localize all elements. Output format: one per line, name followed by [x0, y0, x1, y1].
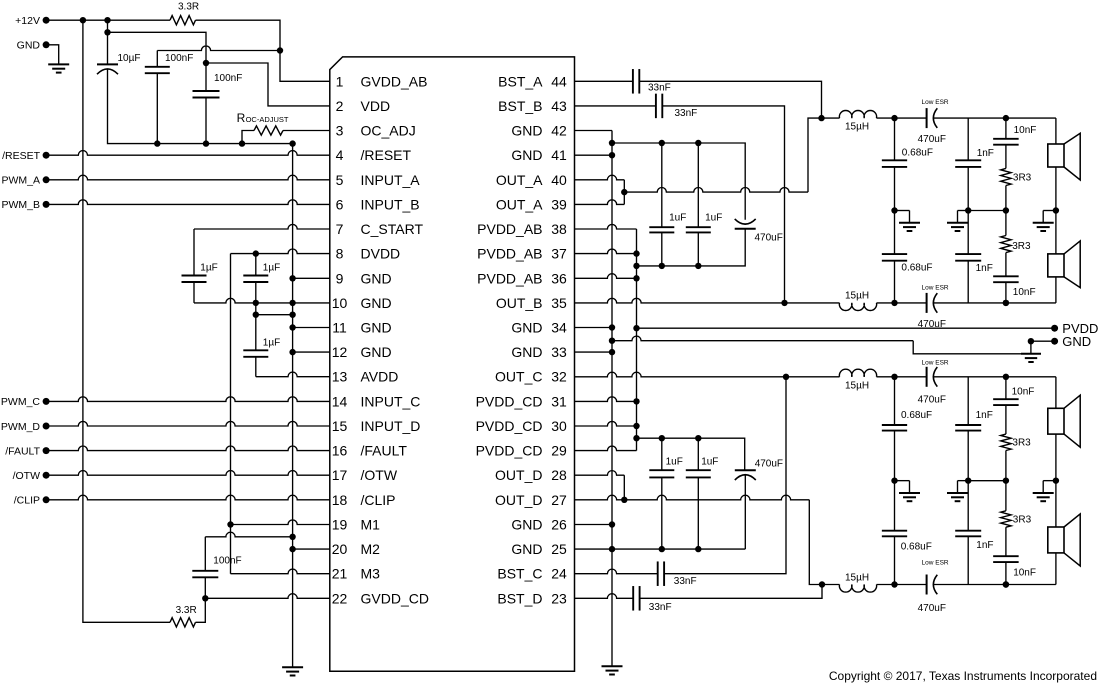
svg-text:20: 20: [332, 541, 348, 557]
terminal GND right: [1051, 338, 1058, 345]
wire /OTW to pin 17: [46, 471, 330, 476]
wire AVDD cap link vertical: [255, 303, 257, 315]
svg-text:OUT_B: OUT_B: [496, 295, 543, 311]
svg-text:18: 18: [332, 492, 348, 508]
wire GND pin 33: [575, 351, 613, 353]
svg-text:3R3: 3R3: [1012, 438, 1031, 449]
ground CD mid 2: [947, 481, 968, 502]
wire 1uF3 to AVDD pin 13: [255, 357, 257, 377]
wire OUT_B pin 35: [575, 298, 785, 303]
junction OUT_C zobel node: [1003, 374, 1009, 380]
svg-text:28: 28: [551, 467, 567, 483]
svg-text:22: 22: [332, 590, 348, 606]
junction bus 100nF link: [289, 534, 295, 540]
junction link right: [289, 312, 295, 318]
wire OUT_D to series cap: [895, 584, 927, 586]
wire /CLIP to pin 18: [46, 495, 330, 500]
wire 1nF B top lead: [967, 211, 969, 255]
svg-text:15µH: 15µH: [845, 380, 869, 391]
svg-text:1: 1: [336, 73, 344, 89]
svg-text:15µH: 15µH: [845, 122, 869, 133]
svg-text:GND: GND: [17, 40, 41, 52]
svg-text:30: 30: [551, 418, 567, 434]
junction CD rail 1uF b: [695, 435, 701, 441]
junction OUT_C / BST_C: [783, 374, 789, 380]
capacitor 33nF (BST_A): [633, 69, 639, 94]
svg-text:0.68uF: 0.68uF: [901, 410, 932, 421]
svg-text:42: 42: [551, 123, 567, 139]
resistor 3R3 (A): [1001, 168, 1011, 185]
svg-text:37: 37: [551, 246, 567, 262]
wire OUT_D jog down: [623, 475, 625, 500]
wire left GND bus: [292, 144, 294, 668]
wire right GND bus: [611, 131, 613, 667]
junction VDD to pin2 branch: [203, 60, 209, 66]
wire CD decoupling top rail: [637, 438, 745, 470]
wire 1uF1 bottom lead: [193, 282, 195, 303]
wire GND terminal to ground: [46, 45, 59, 65]
terminal PWM_D: [43, 423, 50, 430]
svg-text:43: 43: [551, 98, 567, 114]
junction AB bottom rail 1uF a: [659, 263, 665, 269]
svg-text:6: 6: [336, 196, 344, 212]
wire OUT_C to inductor: [786, 376, 840, 378]
wire 0.68uF D bottom lead: [894, 536, 896, 584]
wire 1uF bottom to GND pin 10 line: [194, 298, 256, 303]
wire 100nF1 top: [156, 51, 158, 67]
wire 3.3R to GVDD_AB corner: [196, 20, 281, 50]
svg-text:3R3: 3R3: [1012, 241, 1031, 252]
svg-text:32: 32: [551, 369, 567, 385]
svg-text:10nF: 10nF: [1013, 287, 1036, 298]
svg-text:C_START: C_START: [361, 221, 424, 237]
wire 0.68uF B top lead: [894, 211, 896, 255]
capacitor 10nF (D): [993, 556, 1019, 562]
wire 3R3 A to mid rail: [1005, 186, 1007, 211]
svg-text:15: 15: [332, 418, 348, 434]
wire 0.68uF A bottom lead: [894, 167, 896, 211]
svg-text:4: 4: [336, 147, 344, 163]
svg-text:24: 24: [551, 566, 567, 582]
svg-text:DVDD: DVDD: [361, 246, 401, 262]
wire OUT_B after series cap: [934, 302, 1006, 304]
svg-text:23: 23: [551, 590, 567, 606]
wire 3R3 B from mid rail: [1005, 211, 1007, 236]
junction PVDD bus pin 31: [633, 398, 639, 404]
wire OUT_A riser: [808, 118, 840, 192]
ground AB mid 2: [947, 211, 968, 232]
capacitor 1nF (A): [955, 160, 981, 167]
svg-text:INPUT_A: INPUT_A: [361, 172, 421, 188]
svg-text:1µF: 1µF: [200, 262, 217, 273]
wire CD mid gnd3 step: [1043, 480, 1056, 482]
wire PWM_D to pin 15: [46, 421, 330, 426]
wire 1nF C top lead: [967, 377, 969, 425]
wire 1uF AB b bottom: [697, 232, 699, 266]
wire OC_ADJ to pin 3: [283, 130, 330, 132]
svg-text:/RESET: /RESET: [2, 150, 41, 162]
capacitor 1uF (C_START): [182, 276, 207, 283]
svg-text:OUT_D: OUT_D: [495, 467, 542, 483]
junction GND rail at 100nF1: [154, 140, 160, 146]
capacitor 470uF Low ESR (OUT_A): [927, 108, 938, 128]
wire 10nF B bottom lead: [1005, 282, 1007, 303]
svg-text:1uF: 1uF: [666, 457, 683, 468]
junction GVDD_AB node: [277, 47, 283, 53]
svg-text:26: 26: [551, 517, 567, 533]
wire 0.68uF B bottom lead: [894, 261, 896, 303]
junction AB mid rail 0.68uF: [891, 207, 897, 213]
inductor 15uH (OUT_C): [839, 369, 876, 377]
svg-text:15µH: 15µH: [845, 572, 869, 583]
terminal PWM_A: [43, 176, 50, 183]
svg-text:+12V: +12V: [15, 15, 40, 27]
svg-text:/RESET: /RESET: [361, 147, 412, 163]
junction OUT_B zobel node: [1003, 300, 1009, 306]
svg-text:Low ESR: Low ESR: [922, 99, 949, 106]
wire AB mid gnd2 step: [958, 210, 969, 212]
svg-text:PVDD_AB: PVDD_AB: [477, 246, 542, 262]
wire OUT_D combined: [624, 495, 809, 500]
junction bus pin 9: [289, 275, 295, 281]
svg-text:M2: M2: [361, 541, 381, 557]
wire 1nF B bottom lead: [967, 261, 969, 303]
junction CD bottom rail 1uF b: [695, 546, 701, 552]
wire GVDD_CD to pin 22: [205, 594, 329, 599]
svg-text:/OTW: /OTW: [361, 467, 398, 483]
wire BST_C to OUT_C node: [664, 377, 786, 574]
svg-text:1uF: 1uF: [705, 213, 722, 224]
capacitor 0.68uF (C): [882, 425, 907, 431]
svg-text:35: 35: [551, 295, 567, 311]
wire OUT_A pin 40: [575, 175, 625, 180]
svg-text:1nF: 1nF: [976, 410, 993, 421]
wire OUT_B to inductor: [785, 302, 840, 304]
svg-text:9: 9: [336, 270, 344, 286]
capacitor 1uF (PVDD_CD a): [649, 470, 674, 477]
svg-text:33nF: 33nF: [675, 108, 698, 119]
wire OUT_A jog up: [623, 192, 625, 204]
wire GND terminal link: [1031, 341, 1055, 354]
svg-text:AVDD: AVDD: [361, 369, 399, 385]
capacitor 1uF (DVDD): [243, 276, 268, 283]
wire VDD vertical: [205, 45, 207, 91]
svg-text:33nF: 33nF: [649, 602, 672, 613]
capacitor 10nF (C): [993, 399, 1019, 405]
wire PVDD bus: [636, 229, 638, 451]
junction AB mid rail speaker: [1053, 207, 1059, 213]
wire OUT_B inductor to filter node: [877, 302, 895, 304]
capacitor 100nF (VDD decoupling 1): [145, 67, 170, 73]
wire C_START to pin 7: [194, 224, 330, 229]
wire OUT_A after series cap: [934, 117, 1006, 119]
terminal GND: [43, 41, 50, 48]
junction AB mid rail zobel: [1003, 207, 1009, 213]
svg-text:44: 44: [551, 73, 567, 89]
wire 470uF CD bottom: [744, 475, 746, 549]
resistor 3.3R (GVDD_AB supply): [170, 16, 196, 25]
wire M1 pin 19: [231, 520, 330, 525]
svg-text:3: 3: [336, 123, 344, 139]
junction GND rail to OC resistor: [239, 140, 245, 146]
ground left bus (bottom): [282, 667, 303, 675]
capacitor 470uF (PVDD_CD bulk): [735, 470, 756, 480]
junction CD mid rail 0.68uF: [891, 477, 897, 483]
junction pin10 / 1uF2: [253, 300, 259, 306]
svg-text:10: 10: [332, 295, 348, 311]
wire PWM_B to pin 6: [46, 200, 330, 205]
ground AB mid 3: [1033, 211, 1054, 232]
ground GND terminal: [48, 64, 69, 72]
wire speaker D bottom lead: [1055, 553, 1057, 585]
junction AB mid rail 1nF: [965, 207, 971, 213]
capacitor 1uF (AVDD): [243, 350, 268, 357]
wire GND pin 34: [575, 327, 613, 329]
svg-text:100nF: 100nF: [214, 73, 242, 84]
svg-text:PWM_C: PWM_C: [1, 396, 41, 408]
wire speaker D top lead: [1055, 481, 1057, 527]
svg-text:12: 12: [332, 344, 348, 360]
junction GND rail to left bus: [289, 140, 295, 146]
terminal /FAULT: [43, 447, 50, 454]
junction OUT_B filter node: [891, 300, 897, 306]
svg-text:Low ESR: Low ESR: [922, 560, 949, 567]
svg-text:GND: GND: [361, 344, 392, 360]
junction CD bottom rail 1uF a: [659, 546, 665, 552]
wire OUT_C pin 32: [575, 372, 787, 377]
junction bus pin 41: [609, 152, 615, 158]
svg-text:1nF: 1nF: [976, 540, 993, 551]
wire OUT_D inductor to filter node: [877, 584, 895, 586]
junction OUT_A filter node: [891, 115, 897, 121]
junction VDD branch: [104, 29, 110, 35]
svg-text:/FAULT: /FAULT: [5, 445, 40, 457]
wire PVDD rail: [637, 327, 1055, 329]
wire 3.3R to GVDD_CD: [196, 598, 206, 622]
svg-text:1uF: 1uF: [701, 457, 718, 468]
terminal +12V: [43, 17, 50, 24]
capacitor 33nF (BST_B): [656, 94, 662, 119]
wire OUT_B to speaker: [1006, 302, 1056, 304]
wire M3 pin 21: [231, 569, 330, 574]
wire 10nF A to 3R3: [1005, 145, 1007, 169]
wire OUT_D riser: [809, 500, 839, 585]
speaker (B): [1048, 241, 1080, 288]
junction +12V / 10uF branch: [104, 17, 110, 23]
wire speaker C bottom lead: [1055, 434, 1057, 481]
wire PWM_A to pin 5: [46, 175, 330, 180]
inductor 15uH (OUT_D): [839, 585, 876, 593]
svg-text:41: 41: [551, 147, 567, 163]
junction CD mid rail speaker: [1053, 477, 1059, 483]
svg-text:INPUT_B: INPUT_B: [361, 196, 420, 212]
capacitor 1uF (PVDD_CD b): [686, 470, 711, 477]
wire 10uF bottom to GND rail: [108, 69, 158, 144]
wire DVDD drop to M1/M3: [230, 254, 232, 574]
wire 1nF C bottom lead: [967, 431, 969, 481]
wire 100nF3 top lead: [204, 537, 206, 571]
wire PVDD_AB pin 36: [575, 274, 637, 279]
svg-text:10µF: 10µF: [118, 53, 141, 64]
svg-text:OUT_D: OUT_D: [495, 492, 542, 508]
svg-text:2: 2: [336, 98, 344, 114]
svg-text:470uF: 470uF: [918, 395, 946, 406]
junction bus pin 25: [609, 546, 615, 552]
ground GND rail: [1021, 354, 1041, 362]
capacitor 0.68uF (B): [882, 254, 907, 261]
svg-text:1µF: 1µF: [263, 262, 280, 273]
wire CD mid gnd2 step: [958, 480, 969, 482]
junction OUT_D filter node: [891, 581, 897, 587]
capacitor 33nF (BST_D): [633, 586, 639, 611]
junction BST_D / OUT_D: [819, 581, 825, 587]
svg-text:1µF: 1µF: [263, 337, 280, 348]
wire OUT_A jog down: [623, 180, 625, 192]
wire PVDD_CD pin 29: [575, 446, 637, 451]
junction bus AB rail: [609, 140, 615, 146]
junction AB bottom rail PVDD bus: [633, 263, 639, 269]
speaker (A): [1048, 133, 1080, 180]
wire BST_D pin 23: [575, 594, 634, 599]
junction GND terminal link: [1028, 338, 1034, 344]
resistor 3R3 (C): [1001, 434, 1011, 450]
wire 1nF D bottom lead: [967, 536, 969, 584]
wire /FAULT to pin 16: [46, 446, 330, 451]
wire 0.68uF D top lead: [894, 481, 896, 531]
wire BST_B pin 43: [575, 105, 656, 107]
wire speaker A bottom lead: [1055, 167, 1057, 211]
svg-text:M1: M1: [361, 517, 381, 533]
svg-text:470uF: 470uF: [918, 134, 946, 145]
wire 10nF C to 3R3: [1005, 405, 1007, 434]
svg-text:33nF: 33nF: [674, 576, 697, 587]
svg-text:Low ESR: Low ESR: [922, 285, 949, 292]
capacitor 10uF (polarized): [97, 64, 118, 74]
junction GND rail at 100nF2: [203, 140, 209, 146]
junction CD rail 1uF a: [659, 435, 665, 441]
svg-text:VDD: VDD: [361, 98, 391, 114]
svg-text:PVDD_CD: PVDD_CD: [476, 393, 543, 409]
wire GND pin 42: [575, 130, 613, 132]
svg-text:470uF: 470uF: [918, 603, 946, 614]
svg-text:25: 25: [551, 541, 567, 557]
junction OUT_C filter node: [891, 374, 897, 380]
wire speaker B bottom lead: [1055, 277, 1057, 303]
svg-text:470uF: 470uF: [755, 459, 783, 470]
wire speaker A top lead: [1055, 118, 1057, 144]
capacitor 1uF (PVDD_AB a): [649, 227, 674, 232]
resistor 3R3 (B): [1001, 236, 1011, 253]
ground CD mid 3: [1033, 481, 1054, 502]
svg-text:21: 21: [332, 566, 348, 582]
capacitor 470uF Low ESR (OUT_C): [927, 367, 938, 387]
junction bus pin 12: [289, 349, 295, 355]
wire 10nF D bottom lead: [1005, 562, 1007, 584]
wire AB mid rail link: [968, 210, 1006, 212]
wire AVDD cap link: [256, 314, 293, 316]
capacitor 1uF (PVDD_AB b): [686, 227, 711, 232]
junction BST_A / OUT_A: [818, 115, 824, 121]
wire 10nF A top lead: [1005, 118, 1007, 139]
svg-text:7: 7: [336, 221, 344, 237]
svg-text:OUT_A: OUT_A: [496, 172, 543, 188]
svg-text:8: 8: [336, 246, 344, 262]
wire 0.68uF A top lead: [894, 118, 896, 160]
svg-text:17: 17: [332, 467, 348, 483]
wire 1uF CD b bottom: [697, 477, 699, 549]
junction AB bottom rail 1uF b: [695, 263, 701, 269]
wire 1uF2 bottom lead: [255, 282, 257, 303]
wire 3R3 B to 10nF: [1005, 253, 1007, 277]
wire GND pin 10 to bus: [256, 302, 330, 304]
svg-text:R: R: [237, 111, 246, 125]
terminal /OTW: [43, 472, 50, 479]
svg-text:31: 31: [551, 393, 567, 409]
terminal /RESET: [43, 152, 50, 159]
svg-text:14: 14: [332, 393, 348, 409]
svg-text:PVDD_CD: PVDD_CD: [476, 443, 543, 459]
svg-text:PWM_D: PWM_D: [1, 421, 41, 433]
wire GND pin 9: [293, 277, 330, 279]
svg-text:16: 16: [332, 443, 348, 459]
wire 0.68uF C top lead: [894, 377, 896, 425]
wire top GND rail: [157, 143, 292, 145]
wire PWM_C to pin 14: [46, 397, 330, 402]
resistor 3R3 (D): [1001, 511, 1011, 527]
capacitor 0.68uF (A): [882, 160, 907, 167]
svg-text:1uF: 1uF: [669, 213, 686, 224]
wire OUT_C to speaker: [1006, 376, 1056, 378]
ground AB mid 1: [899, 211, 920, 232]
svg-text:BST_C: BST_C: [497, 566, 542, 582]
svg-text:BST_D: BST_D: [497, 590, 542, 606]
wire BST_C pin 24: [575, 569, 658, 574]
svg-text:19: 19: [332, 517, 348, 533]
svg-text:34: 34: [551, 320, 567, 336]
wire +12V vertical feed to bottom 3.3R: [83, 20, 170, 622]
op-amp U1 TAS5612LA class-D amplifier outline: [330, 57, 575, 671]
wire GND pin 26: [575, 524, 613, 526]
svg-text:GVDD_CD: GVDD_CD: [361, 590, 429, 606]
svg-text:PVDD_AB: PVDD_AB: [477, 270, 542, 286]
svg-text:27: 27: [551, 492, 567, 508]
wire 1uF CD b top: [697, 438, 699, 470]
wire OUT_D pin 27: [575, 495, 625, 500]
junction 10nF B row: [1003, 300, 1009, 306]
wire OUT_A to series cap: [895, 117, 927, 119]
wire AB decoupling top rail: [612, 143, 745, 220]
svg-text:GND: GND: [511, 123, 542, 139]
svg-text:40: 40: [551, 172, 567, 188]
wire 1nF A top lead: [967, 118, 969, 160]
wire GVDD_AB into pin 1: [280, 51, 330, 82]
wire BST_A pin 44: [575, 80, 633, 82]
wire DVDD pin 8: [231, 249, 330, 254]
svg-text:38: 38: [551, 221, 567, 237]
wire OUT_B to series cap: [895, 302, 927, 304]
wire OUT_A to speaker: [1006, 117, 1056, 119]
terminal PWM_C: [43, 398, 50, 405]
junction bus pin 26: [609, 521, 615, 527]
wire GND pin 25 rail: [575, 548, 746, 550]
svg-text:100nF: 100nF: [213, 556, 241, 567]
wire CD mid gnd1 step: [895, 480, 910, 482]
wire GND pin 41: [575, 154, 613, 156]
wire GND pin 11: [293, 327, 330, 329]
wire OUT_C inductor to filter node: [877, 376, 895, 378]
junction bus pin 11: [289, 324, 295, 330]
capacitor 100nF (GVDD_CD): [192, 571, 218, 578]
